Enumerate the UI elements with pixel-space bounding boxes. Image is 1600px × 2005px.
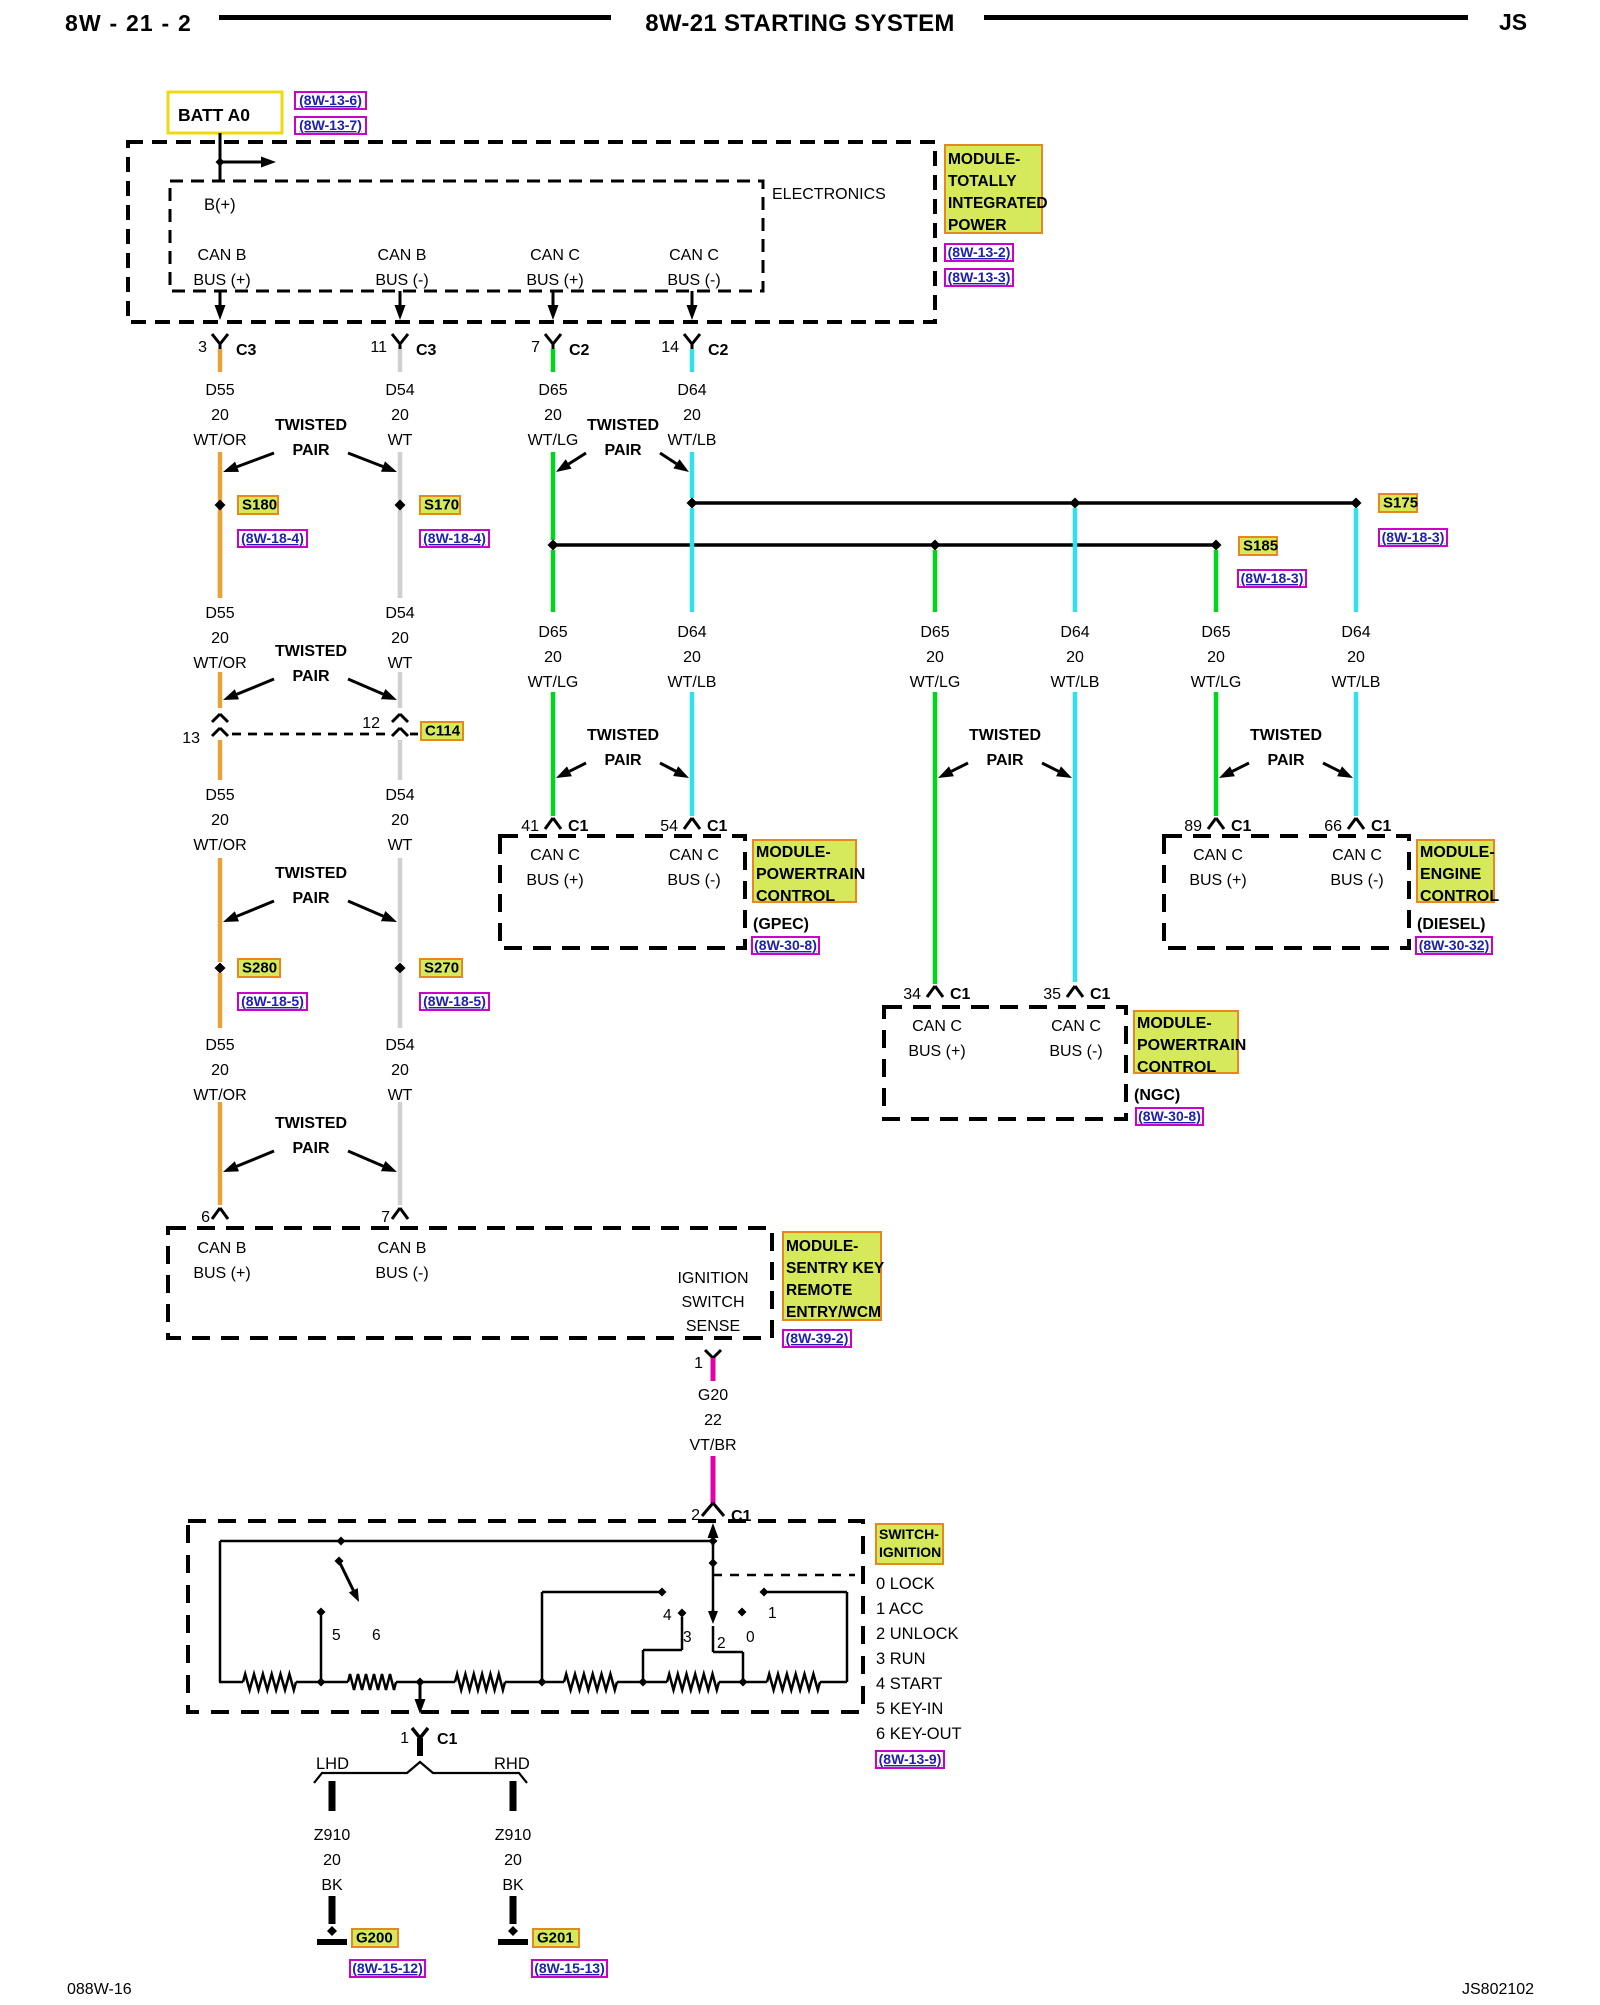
svg-text:D55: D55: [205, 382, 234, 399]
svg-text:CAN C: CAN C: [530, 247, 580, 264]
svg-text:WT: WT: [388, 655, 413, 672]
svg-text:CAN C: CAN C: [1332, 847, 1382, 864]
svg-text:CAN C: CAN C: [530, 847, 580, 864]
svg-text:C2: C2: [708, 342, 729, 359]
svg-text:20: 20: [323, 1852, 341, 1869]
svg-text:IGNITION: IGNITION: [677, 1270, 748, 1287]
svg-text:D54: D54: [385, 382, 414, 399]
svg-text:G201: G201: [537, 1930, 574, 1947]
svg-text:SWITCH-: SWITCH-: [879, 1526, 939, 1542]
svg-text:8W-21 STARTING SYSTEM: 8W-21 STARTING SYSTEM: [645, 10, 954, 37]
svg-text:PAIR: PAIR: [604, 442, 641, 459]
svg-text:20: 20: [1207, 649, 1225, 666]
svg-text:(8W-13-6): (8W-13-6): [299, 92, 362, 108]
svg-text:TWISTED: TWISTED: [587, 417, 659, 434]
svg-text:D65: D65: [538, 382, 567, 399]
svg-text:CAN B: CAN B: [198, 247, 247, 264]
svg-text:C1: C1: [707, 818, 728, 835]
svg-text:WT/LG: WT/LG: [528, 674, 579, 691]
svg-text:22: 22: [704, 1412, 722, 1429]
svg-text:20: 20: [391, 407, 409, 424]
svg-text:C1: C1: [437, 1731, 458, 1748]
svg-text:REMOTE: REMOTE: [786, 1282, 852, 1299]
svg-text:S180: S180: [242, 497, 277, 514]
svg-text:66: 66: [1324, 818, 1342, 835]
svg-text:(NGC): (NGC): [1134, 1087, 1180, 1104]
svg-text:(8W-18-5): (8W-18-5): [241, 993, 304, 1009]
svg-text:ENTRY/WCM: ENTRY/WCM: [786, 1304, 881, 1321]
svg-text:CONTROL: CONTROL: [756, 888, 835, 905]
svg-text:(GPEC): (GPEC): [753, 916, 809, 933]
svg-text:C1: C1: [1371, 818, 1392, 835]
svg-text:20: 20: [211, 1062, 229, 1079]
svg-text:12: 12: [362, 715, 380, 732]
svg-text:14: 14: [661, 339, 679, 356]
svg-text:TWISTED: TWISTED: [1250, 727, 1322, 744]
svg-text:(8W-15-12): (8W-15-12): [352, 1960, 423, 1976]
svg-text:G20: G20: [698, 1387, 728, 1404]
svg-text:(8W-18-3): (8W-18-3): [1241, 570, 1304, 586]
svg-text:PAIR: PAIR: [292, 890, 329, 907]
svg-text:0 LOCK: 0 LOCK: [876, 1575, 935, 1593]
svg-text:C1: C1: [1090, 986, 1111, 1003]
svg-text:BUS (+): BUS (+): [526, 272, 583, 289]
svg-text:2: 2: [717, 1635, 726, 1652]
svg-text:CONTROL: CONTROL: [1420, 888, 1499, 905]
svg-text:TWISTED: TWISTED: [275, 417, 347, 434]
svg-text:BK: BK: [502, 1877, 524, 1894]
svg-text:(8W-18-5): (8W-18-5): [423, 993, 486, 1009]
svg-text:Z910: Z910: [495, 1827, 532, 1844]
svg-text:1: 1: [694, 1355, 703, 1372]
svg-text:D54: D54: [385, 605, 414, 622]
svg-text:D64: D64: [1341, 624, 1370, 641]
svg-text:20: 20: [391, 812, 409, 829]
svg-text:CAN C: CAN C: [912, 1018, 962, 1035]
svg-text:C1: C1: [568, 818, 589, 835]
svg-text:088W-16: 088W-16: [67, 1981, 132, 1998]
svg-text:20: 20: [391, 630, 409, 647]
svg-text:TWISTED: TWISTED: [587, 727, 659, 744]
svg-text:D54: D54: [385, 787, 414, 804]
svg-text:SENSE: SENSE: [686, 1318, 740, 1335]
svg-text:INTEGRATED: INTEGRATED: [948, 195, 1048, 212]
svg-text:WT/LB: WT/LB: [668, 432, 717, 449]
svg-text:(8W-30-32): (8W-30-32): [1419, 937, 1490, 953]
svg-text:11: 11: [370, 339, 387, 356]
svg-text:B(+): B(+): [204, 196, 236, 214]
svg-text:5 KEY-IN: 5 KEY-IN: [876, 1700, 943, 1718]
svg-text:13: 13: [182, 730, 200, 747]
svg-text:3 RUN: 3 RUN: [876, 1650, 926, 1668]
svg-text:JS: JS: [1499, 9, 1527, 35]
svg-text:RHD: RHD: [494, 1755, 530, 1773]
svg-text:PAIR: PAIR: [1267, 752, 1304, 769]
svg-text:D64: D64: [677, 382, 706, 399]
svg-text:TWISTED: TWISTED: [275, 865, 347, 882]
svg-text:PAIR: PAIR: [292, 1140, 329, 1157]
svg-text:WT/LB: WT/LB: [668, 674, 717, 691]
svg-text:1: 1: [400, 1730, 409, 1747]
svg-text:8W - 21 - 2: 8W - 21 - 2: [65, 10, 192, 36]
svg-text:BUS (+): BUS (+): [526, 872, 583, 889]
svg-text:20: 20: [211, 812, 229, 829]
svg-text:MODULE-: MODULE-: [1420, 844, 1495, 861]
svg-text:PAIR: PAIR: [292, 442, 329, 459]
svg-text:20: 20: [211, 630, 229, 647]
svg-text:BUS (-): BUS (-): [375, 1265, 428, 1282]
svg-text:(8W-30-8): (8W-30-8): [1138, 1108, 1201, 1124]
svg-text:D54: D54: [385, 1037, 414, 1054]
svg-text:MODULE-: MODULE-: [1137, 1015, 1212, 1032]
svg-text:BUS (-): BUS (-): [1049, 1043, 1102, 1060]
svg-text:4: 4: [663, 1607, 672, 1624]
svg-text:S170: S170: [424, 497, 459, 514]
svg-text:S185: S185: [1243, 538, 1278, 555]
svg-text:S270: S270: [424, 960, 459, 977]
svg-text:WT/LB: WT/LB: [1051, 674, 1100, 691]
svg-text:PAIR: PAIR: [604, 752, 641, 769]
svg-text:41: 41: [521, 818, 539, 835]
svg-text:POWERTRAIN: POWERTRAIN: [756, 866, 865, 883]
svg-text:D55: D55: [205, 605, 234, 622]
svg-text:BUS (+): BUS (+): [193, 1265, 250, 1282]
svg-text:20: 20: [544, 649, 562, 666]
svg-text:C1: C1: [950, 986, 971, 1003]
svg-text:TOTALLY: TOTALLY: [948, 173, 1017, 190]
svg-text:WT/LG: WT/LG: [1191, 674, 1242, 691]
svg-text:WT/LG: WT/LG: [528, 432, 579, 449]
svg-text:(8W-18-4): (8W-18-4): [423, 530, 486, 546]
svg-text:CAN B: CAN B: [378, 1240, 427, 1257]
svg-text:89: 89: [1184, 818, 1202, 835]
svg-text:BUS (-): BUS (-): [1330, 872, 1383, 889]
svg-text:(8W-18-3): (8W-18-3): [1382, 529, 1445, 545]
svg-text:CONTROL: CONTROL: [1137, 1059, 1216, 1076]
svg-text:D65: D65: [1201, 624, 1230, 641]
svg-text:G200: G200: [356, 1930, 393, 1947]
svg-text:1 ACC: 1 ACC: [876, 1600, 924, 1618]
svg-text:CAN C: CAN C: [669, 247, 719, 264]
svg-text:C1: C1: [1231, 818, 1252, 835]
svg-text:6: 6: [201, 1209, 210, 1226]
svg-text:CAN C: CAN C: [1051, 1018, 1101, 1035]
svg-text:(8W-13-9): (8W-13-9): [879, 1751, 942, 1767]
svg-text:(8W-15-13): (8W-15-13): [534, 1960, 605, 1976]
svg-text:MODULE-: MODULE-: [948, 151, 1020, 168]
svg-text:MODULE-: MODULE-: [756, 844, 831, 861]
svg-text:3: 3: [198, 339, 207, 356]
svg-text:6 KEY-OUT: 6 KEY-OUT: [876, 1725, 962, 1743]
svg-text:35: 35: [1043, 986, 1061, 1003]
svg-text:VT/BR: VT/BR: [689, 1437, 736, 1454]
svg-text:20: 20: [1066, 649, 1084, 666]
svg-text:20: 20: [926, 649, 944, 666]
svg-text:(8W-13-7): (8W-13-7): [299, 117, 362, 133]
svg-text:1: 1: [768, 1605, 777, 1622]
svg-text:20: 20: [683, 407, 701, 424]
svg-text:ELECTRONICS: ELECTRONICS: [772, 186, 886, 203]
svg-text:S280: S280: [242, 960, 277, 977]
svg-text:(8W-39-2): (8W-39-2): [786, 1330, 849, 1346]
svg-text:TWISTED: TWISTED: [275, 1115, 347, 1132]
svg-text:D65: D65: [920, 624, 949, 641]
svg-text:Z910: Z910: [314, 1827, 351, 1844]
svg-text:PAIR: PAIR: [292, 668, 329, 685]
svg-text:BUS (-): BUS (-): [667, 272, 720, 289]
svg-text:(8W-13-3): (8W-13-3): [948, 269, 1011, 285]
svg-text:34: 34: [903, 986, 921, 1003]
svg-text:BUS (+): BUS (+): [193, 272, 250, 289]
svg-text:7: 7: [381, 1209, 390, 1226]
svg-text:WT: WT: [388, 1087, 413, 1104]
svg-text:WT/OR: WT/OR: [193, 432, 246, 449]
svg-text:BUS (+): BUS (+): [1189, 872, 1246, 889]
svg-text:IGNITION: IGNITION: [879, 1544, 941, 1560]
svg-text:3: 3: [683, 1629, 692, 1646]
svg-text:0: 0: [746, 1629, 755, 1646]
svg-text:PAIR: PAIR: [986, 752, 1023, 769]
svg-text:54: 54: [660, 818, 678, 835]
svg-text:CAN B: CAN B: [378, 247, 427, 264]
svg-text:TWISTED: TWISTED: [275, 643, 347, 660]
svg-text:CAN C: CAN C: [669, 847, 719, 864]
svg-text:7: 7: [531, 339, 540, 356]
svg-text:D65: D65: [538, 624, 567, 641]
svg-text:WT/LB: WT/LB: [1332, 674, 1381, 691]
svg-text:POWER: POWER: [948, 217, 1007, 234]
svg-text:BATT A0: BATT A0: [178, 105, 250, 125]
svg-text:BUS (+): BUS (+): [908, 1043, 965, 1060]
svg-text:(8W-18-4): (8W-18-4): [241, 530, 304, 546]
svg-text:(8W-13-2): (8W-13-2): [948, 244, 1011, 260]
svg-text:D64: D64: [1060, 624, 1089, 641]
svg-text:5: 5: [332, 1627, 341, 1644]
svg-text:C2: C2: [569, 342, 590, 359]
svg-text:MODULE-: MODULE-: [786, 1238, 858, 1255]
svg-text:WT/OR: WT/OR: [193, 655, 246, 672]
svg-text:BK: BK: [321, 1877, 343, 1894]
svg-text:BUS (-): BUS (-): [667, 872, 720, 889]
svg-text:C114: C114: [425, 723, 461, 740]
svg-text:20: 20: [1347, 649, 1365, 666]
svg-text:CAN C: CAN C: [1193, 847, 1243, 864]
svg-text:CAN B: CAN B: [198, 1240, 247, 1257]
svg-text:TWISTED: TWISTED: [969, 727, 1041, 744]
svg-text:D55: D55: [205, 1037, 234, 1054]
svg-text:WT: WT: [388, 432, 413, 449]
svg-text:20: 20: [683, 649, 701, 666]
svg-text:JS802102: JS802102: [1462, 1981, 1534, 1998]
svg-text:LHD: LHD: [316, 1755, 349, 1773]
svg-text:S175: S175: [1383, 495, 1418, 512]
svg-text:20: 20: [504, 1852, 522, 1869]
svg-text:WT/LG: WT/LG: [910, 674, 961, 691]
svg-text:SWITCH: SWITCH: [681, 1294, 744, 1311]
svg-text:C3: C3: [416, 342, 437, 359]
svg-text:(8W-30-8): (8W-30-8): [754, 937, 817, 953]
svg-text:ENGINE: ENGINE: [1420, 866, 1482, 883]
svg-text:WT/OR: WT/OR: [193, 1087, 246, 1104]
svg-text:20: 20: [544, 407, 562, 424]
svg-text:4 START: 4 START: [876, 1675, 942, 1693]
svg-text:WT: WT: [388, 837, 413, 854]
svg-text:6: 6: [372, 1627, 381, 1644]
svg-text:2 UNLOCK: 2 UNLOCK: [876, 1625, 959, 1643]
svg-text:(DIESEL): (DIESEL): [1417, 916, 1485, 933]
svg-text:20: 20: [211, 407, 229, 424]
svg-text:WT/OR: WT/OR: [193, 837, 246, 854]
svg-text:C3: C3: [236, 342, 257, 359]
svg-text:SENTRY KEY: SENTRY KEY: [786, 1260, 885, 1277]
svg-text:BUS (-): BUS (-): [375, 272, 428, 289]
svg-text:20: 20: [391, 1062, 409, 1079]
svg-text:POWERTRAIN: POWERTRAIN: [1137, 1037, 1246, 1054]
svg-text:D55: D55: [205, 787, 234, 804]
svg-text:D64: D64: [677, 624, 706, 641]
